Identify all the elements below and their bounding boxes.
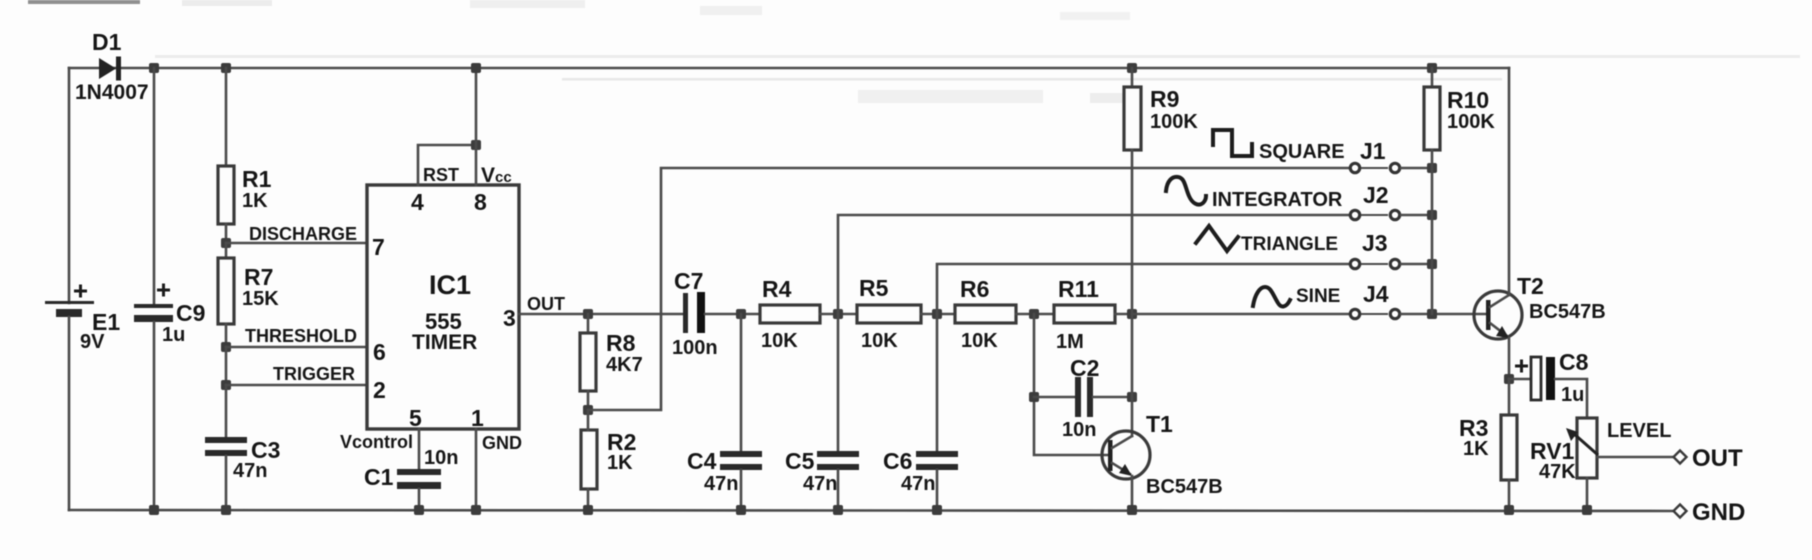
svg-text:TRIANGLE: TRIANGLE [1241, 234, 1338, 255]
wire R6 to R11 [1016, 313, 1054, 316]
capacitor C1 [364, 447, 458, 490]
wire pin 8 Vcc to top rail [475, 68, 478, 185]
resistor R3 [1459, 415, 1517, 480]
wire C5 to bottom rail [837, 470, 840, 510]
wire C4 to bottom rail [740, 470, 743, 510]
wire C3 to bottom rail [225, 456, 228, 510]
jumper J2 [1350, 210, 1399, 219]
jumper J4 [1350, 309, 1399, 318]
svg-text:1M: 1M [1056, 331, 1084, 353]
svg-text:3: 3 [503, 305, 516, 331]
svg-text:IC1: IC1 [429, 270, 471, 300]
node C2 right [1127, 392, 1137, 402]
op-amp IC1 555 timer box [340, 164, 522, 453]
node J2 right [1427, 210, 1437, 220]
node T1 base branch [1029, 309, 1039, 319]
resistor R10 [1424, 87, 1495, 150]
capacitor C5 [785, 448, 859, 495]
terminal OUT [1674, 445, 1744, 472]
node C5 bottom [833, 505, 843, 515]
svg-text:4: 4 [411, 189, 424, 215]
resistor R9 [1124, 86, 1198, 150]
svg-text:C9: C9 [176, 300, 205, 326]
capacitor C7 [672, 268, 718, 359]
svg-text:R10: R10 [1447, 87, 1489, 113]
resistor R8 [580, 330, 643, 391]
node C4 branch [736, 309, 746, 319]
node emitter/C8/R3 [1504, 374, 1514, 384]
wire C7 to R4 [705, 313, 760, 316]
svg-text:100n: 100n [672, 337, 718, 359]
wire R11 to main node [1115, 313, 1132, 316]
node R3 bottom [1504, 505, 1514, 515]
wire node to C6 [936, 314, 939, 451]
wire R2 to bottom rail [587, 489, 590, 510]
svg-text:10n: 10n [1062, 419, 1096, 441]
svg-text:10K: 10K [761, 330, 798, 352]
node R11/R9/sine [1127, 309, 1137, 319]
svg-text:C6: C6 [883, 448, 912, 474]
node triangle branch [932, 309, 942, 319]
diode D1 [75, 29, 149, 104]
svg-text:1K: 1K [242, 190, 268, 212]
svg-text:15K: 15K [242, 288, 279, 310]
node divider R8/R2 [583, 405, 593, 415]
svg-text:1K: 1K [607, 452, 633, 474]
node on rail for C9 [149, 63, 159, 73]
wire left branch from rail to battery [68, 68, 71, 303]
svg-text:7: 7 [372, 234, 385, 260]
svg-text:J2: J2 [1363, 182, 1389, 208]
svg-text:C8: C8 [1559, 349, 1589, 375]
wire R7 to threshold node [225, 324, 228, 347]
wire R8 to divider node [587, 391, 590, 410]
wire C8 to RV1 [1555, 379, 1587, 418]
node C1 bottom [414, 505, 424, 515]
wire C2 to collector line [1093, 396, 1132, 399]
node integrator branch [833, 309, 843, 319]
svg-text:1N4007: 1N4007 [75, 81, 149, 104]
node trigger [221, 380, 231, 390]
svg-text:47n: 47n [901, 473, 935, 495]
svg-text:TIMER: TIMER [412, 331, 477, 354]
wire J4 to T2 base [1401, 313, 1486, 316]
svg-text:OUT: OUT [527, 294, 565, 314]
node R8 top [583, 309, 593, 319]
triangle wave icon [1196, 226, 1238, 251]
svg-text:THRESHOLD: THRESHOLD [245, 326, 357, 346]
potentiometer RV1 [1530, 418, 1598, 483]
node C3 bottom [221, 505, 231, 515]
wire R4 to R5 [820, 313, 857, 316]
node C9 bottom [149, 505, 159, 515]
wire pin 5 to C1 [418, 429, 421, 469]
sine wave icon [1253, 287, 1290, 306]
node R10 top on rail [1427, 63, 1437, 73]
svg-text:4K7: 4K7 [606, 354, 643, 376]
svg-text:TRIGGER: TRIGGER [273, 364, 355, 384]
node pin1 bottom [471, 505, 481, 515]
wire R1 to discharge node [225, 224, 228, 243]
svg-text:LEVEL: LEVEL [1607, 420, 1671, 442]
resistor R1 [218, 166, 272, 224]
svg-text:R1: R1 [242, 166, 272, 192]
svg-text:R6: R6 [960, 276, 989, 302]
wire T2 collector to top rail [1508, 68, 1511, 295]
wire node down to T1 base [1034, 314, 1108, 455]
svg-text:6: 6 [373, 339, 386, 365]
wire R5 to R6 [921, 313, 955, 316]
svg-text:47n: 47n [704, 473, 738, 495]
transistor T1 [1102, 411, 1223, 498]
svg-text:J3: J3 [1362, 230, 1388, 256]
svg-text:T1: T1 [1146, 411, 1173, 437]
svg-text:Vcontrol: Vcontrol [340, 432, 413, 452]
node threshold [221, 342, 231, 352]
svg-text:R8: R8 [606, 330, 636, 356]
svg-text:47n: 47n [803, 473, 837, 495]
svg-text:2: 2 [373, 377, 386, 403]
wire top supply rail [69, 67, 1509, 70]
jumper J1 [1350, 163, 1399, 172]
svg-text:1: 1 [471, 405, 484, 431]
wire pin 3 OUT [519, 313, 683, 316]
wire trigger node to C3 [225, 385, 228, 437]
node RV1 bottom [1582, 505, 1592, 515]
capacitor C8 [1515, 349, 1589, 406]
wire R9 down to T1 collector [1131, 150, 1134, 436]
wire T2 emitter down [1508, 338, 1511, 379]
wire integrator line [838, 215, 1349, 314]
wire TRIGGER to pin 2 [226, 384, 367, 387]
svg-text:R5: R5 [859, 275, 889, 301]
wire battery to bottom rail [68, 317, 71, 510]
svg-text:GND: GND [1692, 499, 1745, 526]
wire RV1 to bottom rail [1586, 478, 1589, 510]
wire triangle line [937, 264, 1349, 314]
wire node to C8 [1509, 378, 1531, 381]
wire THRESHOLD to pin 6 [226, 346, 367, 349]
wire R10 down to J4 node [1431, 150, 1434, 314]
wire rail to R10 [1431, 68, 1434, 87]
svg-text:100K: 100K [1447, 111, 1495, 133]
wire node to C5 [837, 314, 840, 451]
node R2 bottom [583, 505, 593, 515]
wire node to R7 [225, 243, 228, 258]
node on rail for R1 [221, 63, 231, 73]
capacitor C2 [1062, 355, 1099, 441]
capacitor C9 [134, 284, 205, 347]
wire J2 to R10 line [1401, 214, 1432, 217]
resistor R2 [581, 429, 636, 489]
svg-text:R7: R7 [244, 264, 273, 290]
svg-text:8: 8 [474, 189, 487, 215]
svg-text:J1: J1 [1360, 138, 1386, 164]
svg-text:RST: RST [423, 165, 459, 185]
svg-text:T2: T2 [1517, 273, 1544, 299]
svg-text:5: 5 [409, 405, 422, 431]
wire main line to J4 [1132, 313, 1349, 316]
svg-text:1u: 1u [162, 324, 185, 346]
wire node to C2 [1034, 396, 1075, 399]
svg-text:R4: R4 [762, 276, 792, 302]
svg-text:C1: C1 [364, 464, 394, 490]
wire DISCHARGE to pin 7 [226, 242, 367, 245]
wire rail to R9 [1131, 68, 1134, 87]
node Vcc on rail [471, 63, 481, 73]
svg-text:D1: D1 [92, 29, 122, 55]
node C2 left [1029, 392, 1039, 402]
wire C6 to bottom rail [936, 470, 939, 510]
svg-text:1K: 1K [1463, 438, 1489, 460]
jumper J3 [1350, 259, 1399, 268]
svg-text:10K: 10K [961, 330, 998, 352]
svg-text:GND: GND [482, 433, 522, 453]
wire R3 to bottom rail [1508, 480, 1511, 510]
wire node to R8 [587, 314, 590, 333]
wire threshold to trigger node [225, 347, 228, 385]
svg-text:R9: R9 [1150, 86, 1179, 112]
svg-text:9V: 9V [80, 331, 105, 353]
svg-text:10K: 10K [861, 330, 898, 352]
svg-text:10n: 10n [424, 447, 458, 469]
svg-text:47n: 47n [233, 460, 267, 482]
node discharge [221, 238, 231, 248]
wire divider to square line [588, 168, 1349, 410]
terminal GND [1674, 499, 1746, 526]
wire rail to C9 [153, 68, 156, 305]
svg-text:J4: J4 [1363, 281, 1389, 307]
svg-text:INTEGRATOR: INTEGRATOR [1212, 189, 1343, 211]
svg-text:C4: C4 [687, 448, 717, 474]
wire node to R3 [1508, 379, 1511, 415]
resistor R11 [1054, 276, 1115, 353]
node T1 emitter bottom [1127, 505, 1137, 515]
wire J1 to R10 line [1401, 167, 1432, 170]
square wave icon [1213, 130, 1252, 156]
wire J3 to R10 line [1401, 263, 1432, 266]
wire pin 4 reset up and over [418, 145, 476, 185]
svg-text:100K: 100K [1150, 111, 1198, 133]
svg-text:47K: 47K [1539, 461, 1576, 483]
svg-text:R11: R11 [1058, 276, 1099, 302]
wire divider to R2 [587, 410, 590, 430]
svg-text:BC547B: BC547B [1146, 476, 1223, 498]
svg-text:C7: C7 [674, 268, 703, 294]
resistor R5 [857, 275, 921, 352]
capacitor C4 [687, 448, 762, 495]
node J3 right [1427, 259, 1437, 269]
wire RV1 wiper to OUT [1597, 456, 1674, 459]
node C4 bottom [736, 505, 746, 515]
node pin4/pin8 wires join [471, 140, 481, 150]
wire node to C4 [740, 314, 743, 451]
svg-text:DISCHARGE: DISCHARGE [249, 224, 357, 244]
node J1 right [1427, 163, 1437, 173]
svg-text:SQUARE: SQUARE [1259, 141, 1345, 163]
wire pin 1 GND to bottom rail [475, 429, 478, 510]
wire C1 to bottom rail [418, 489, 421, 510]
svg-text:C2: C2 [1070, 355, 1099, 381]
integrator wave icon [1166, 177, 1206, 205]
capacitor C6 [883, 448, 958, 495]
svg-text:1u: 1u [1561, 384, 1584, 406]
battery E1 [45, 285, 120, 354]
svg-text:OUT: OUT [1692, 445, 1743, 472]
node J4/R10 [1427, 309, 1437, 319]
wire rail to R1 [225, 68, 228, 166]
svg-text:BC547B: BC547B [1529, 301, 1606, 323]
node C6 bottom [932, 505, 942, 515]
wire bottom ground rail [69, 510, 1674, 511]
resistor R6 [955, 276, 1016, 352]
wire T1 emitter to bottom rail [1131, 476, 1134, 510]
resistor R4 [760, 276, 820, 352]
svg-text:C5: C5 [785, 448, 815, 474]
svg-text:SINE: SINE [1296, 286, 1340, 307]
svg-text:Vcc: Vcc [481, 164, 512, 187]
node R9 top on rail [1127, 63, 1137, 73]
transistor T2 [1474, 273, 1606, 339]
wire C9 to bottom rail [153, 322, 156, 510]
capacitor C3 [205, 437, 280, 482]
resistor R7 [218, 258, 279, 324]
